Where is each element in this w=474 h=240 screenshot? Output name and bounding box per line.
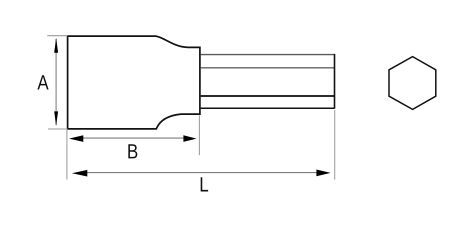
- hex shaft bottom edge: [201, 107, 335, 109]
- left vertical extension line: [66, 130, 68, 180]
- hex shaft lower facet line: [201, 95, 335, 97]
- dimension B right arrow: [183, 135, 196, 142]
- dimension A top extension line: [47, 35, 67, 37]
- hex shaft end cap: [334, 54, 336, 109]
- label B: [128, 144, 137, 158]
- hex shaft top edge: [201, 54, 335, 56]
- dimension B right extension line: [198, 116, 200, 156]
- dimension L right arrow: [316, 170, 330, 177]
- dimension L left arrow: [72, 170, 87, 177]
- hexagon cross-section: [389, 57, 436, 110]
- dimension B line: [82, 137, 185, 139]
- label A: [37, 75, 48, 89]
- dimension L line: [86, 172, 318, 174]
- dimension B left arrow: [69, 135, 83, 142]
- dimension A bottom extension line: [48, 128, 68, 130]
- dimension A line: [55, 39, 57, 125]
- socket body outline: [68, 36, 200, 129]
- dimension A down arrow: [54, 111, 58, 126]
- dimension L right extension line: [334, 110, 336, 180]
- label L: [201, 177, 208, 191]
- dimension A up arrow: [54, 38, 58, 53]
- hex shaft upper facet line: [201, 67, 335, 69]
